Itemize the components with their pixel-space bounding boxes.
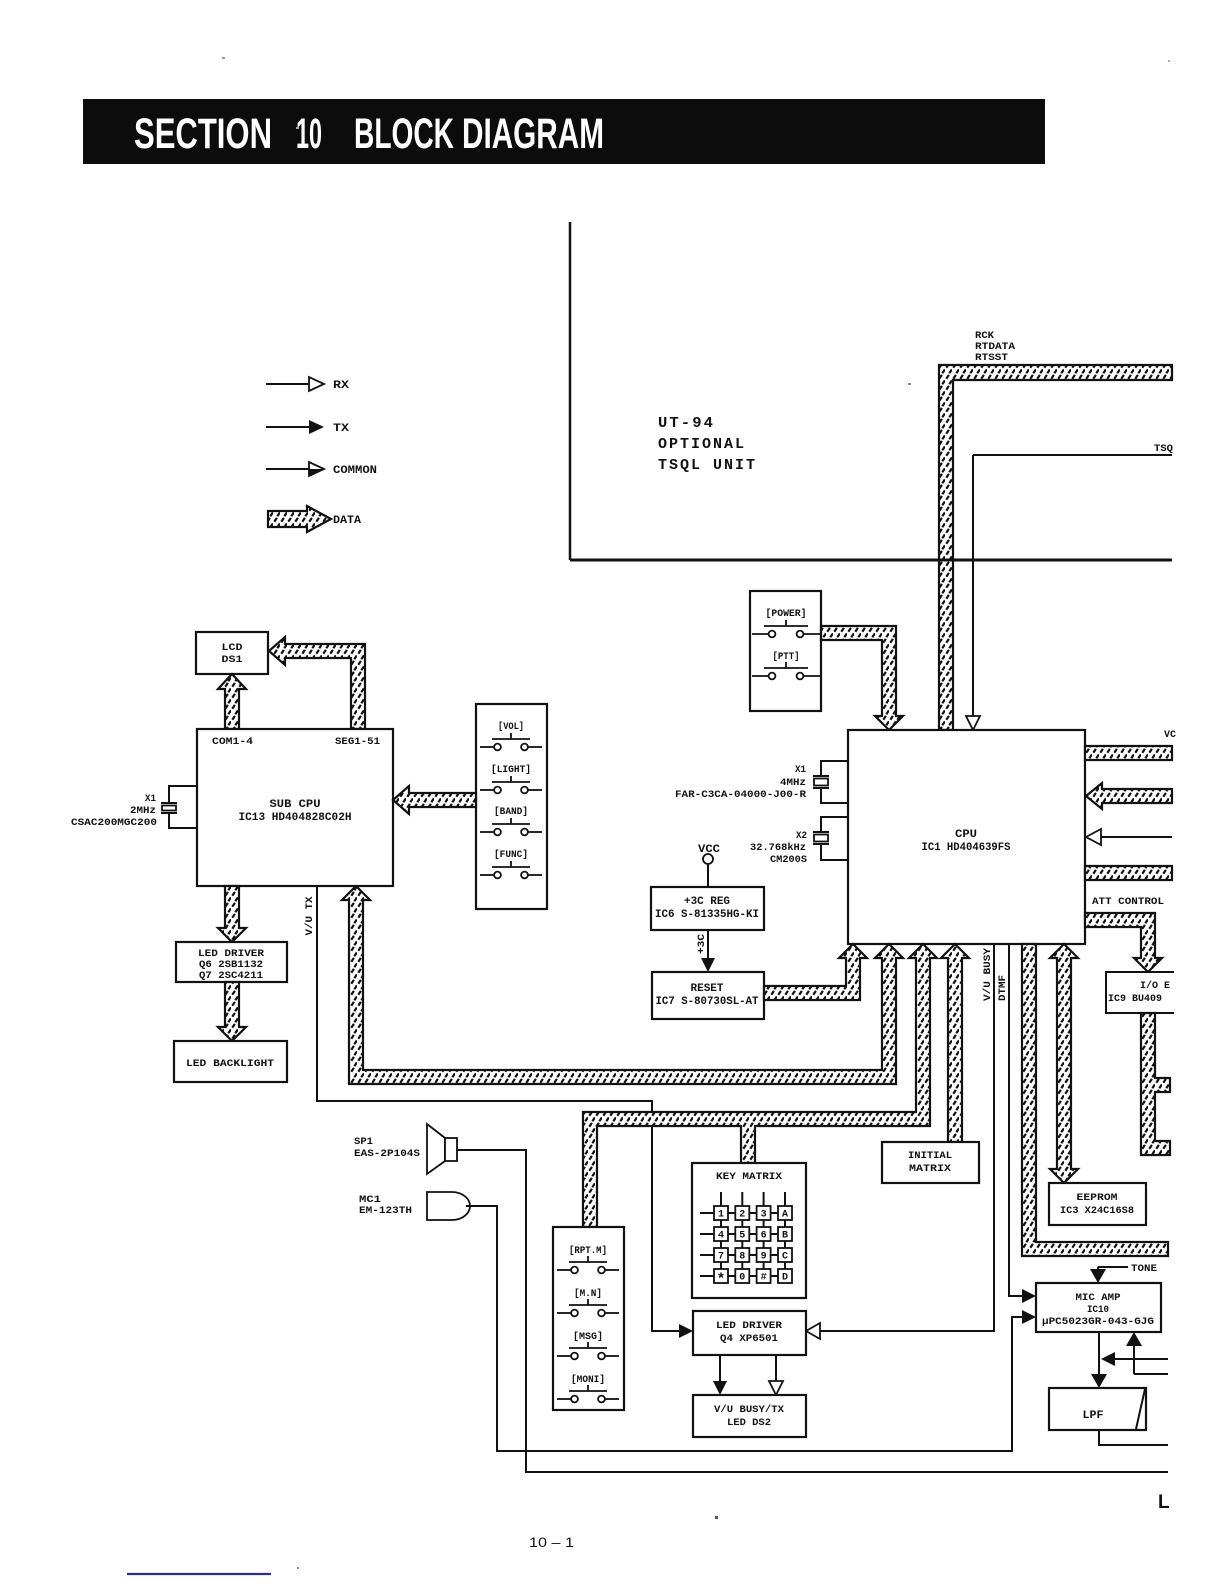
svg-text:DATA: DATA bbox=[333, 515, 361, 527]
svg-text:BLOCK: BLOCK bbox=[354, 110, 454, 158]
svg-text:8: 8 bbox=[739, 1252, 745, 1263]
svg-text:TSQL UNIT: TSQL UNIT bbox=[658, 457, 757, 474]
svg-text:[M.N]: [M.N] bbox=[574, 1288, 602, 1300]
svg-text:[FUNC]: [FUNC] bbox=[494, 849, 528, 861]
svg-text:LPF: LPF bbox=[1083, 1410, 1104, 1422]
svg-text:SECTION: SECTION bbox=[134, 110, 272, 158]
svg-text:RTDATA: RTDATA bbox=[975, 342, 1015, 353]
svg-text:5: 5 bbox=[739, 1231, 745, 1242]
svg-text:X2: X2 bbox=[796, 831, 807, 842]
svg-text:[BAND]: [BAND] bbox=[494, 806, 528, 818]
svg-text:FAR-C3CA-04000-J00-R: FAR-C3CA-04000-J00-R bbox=[675, 790, 806, 801]
svg-text:INITIAL: INITIAL bbox=[908, 1151, 952, 1162]
svg-text:1: 1 bbox=[718, 1210, 724, 1221]
svg-text:X1: X1 bbox=[145, 794, 156, 805]
svg-text:[LIGHT]: [LIGHT] bbox=[491, 764, 531, 776]
svg-text:RCK: RCK bbox=[975, 331, 994, 342]
svg-text:I/O E: I/O E bbox=[1140, 980, 1170, 992]
svg-text:TSQ: TSQ bbox=[1154, 444, 1173, 455]
svg-text:EAS-2P104S: EAS-2P104S bbox=[354, 1149, 420, 1160]
svg-text:LED DS2: LED DS2 bbox=[727, 1418, 771, 1429]
svg-text:3: 3 bbox=[761, 1210, 767, 1221]
svg-text:+3C: +3C bbox=[697, 934, 708, 954]
svg-text:IC13 HD404828C02H: IC13 HD404828C02H bbox=[239, 812, 352, 824]
svg-text:OPTIONAL: OPTIONAL bbox=[658, 436, 746, 453]
svg-text:X1: X1 bbox=[795, 765, 806, 776]
svg-text:[PTT]: [PTT] bbox=[773, 651, 800, 663]
svg-text:LCD: LCD bbox=[222, 643, 243, 654]
svg-text:9: 9 bbox=[761, 1252, 767, 1263]
svg-text:6: 6 bbox=[761, 1231, 767, 1242]
svg-text:TONE: TONE bbox=[1131, 1264, 1157, 1275]
svg-text:LED DRIVER: LED DRIVER bbox=[716, 1321, 782, 1332]
svg-text:VC: VC bbox=[1164, 730, 1176, 741]
svg-text:2: 2 bbox=[739, 1210, 745, 1221]
svg-text:4: 4 bbox=[718, 1231, 724, 1242]
svg-text:RX: RX bbox=[333, 380, 349, 392]
svg-text:V/U TX: V/U TX bbox=[304, 897, 316, 936]
svg-text:D: D bbox=[782, 1273, 788, 1284]
svg-text:EM-123TH: EM-123TH bbox=[359, 1206, 412, 1217]
svg-text:B: B bbox=[782, 1231, 788, 1242]
svg-text:TX: TX bbox=[333, 423, 349, 435]
svg-text:L: L bbox=[1158, 1492, 1170, 1513]
svg-text:[MSG]: [MSG] bbox=[573, 1331, 603, 1343]
svg-text:Q6 2SB1132: Q6 2SB1132 bbox=[199, 960, 263, 971]
svg-text:CPU: CPU bbox=[955, 829, 977, 841]
svg-text:DIAGRAM: DIAGRAM bbox=[462, 110, 604, 158]
svg-text:DS1: DS1 bbox=[222, 655, 243, 666]
svg-text:MIC AMP: MIC AMP bbox=[1076, 1293, 1121, 1304]
svg-text:*: * bbox=[716, 1272, 725, 1289]
svg-text:A: A bbox=[782, 1210, 788, 1221]
svg-text:LED BACKLIGHT: LED BACKLIGHT bbox=[186, 1059, 274, 1070]
svg-text:IC7 S-80730SL-AT: IC7 S-80730SL-AT bbox=[656, 996, 759, 1008]
svg-text:[POWER]: [POWER] bbox=[766, 608, 807, 620]
svg-text:7: 7 bbox=[718, 1252, 724, 1263]
svg-text:COM1-4: COM1-4 bbox=[212, 737, 253, 748]
svg-text:Q7 2SC4211: Q7 2SC4211 bbox=[199, 971, 263, 982]
svg-text:KEY MATRIX: KEY MATRIX bbox=[716, 1172, 782, 1183]
svg-text:µPC5023GR-043-GJG: µPC5023GR-043-GJG bbox=[1042, 1317, 1154, 1328]
svg-text:0: 0 bbox=[739, 1273, 745, 1284]
svg-text:Q4 XP6501: Q4 XP6501 bbox=[720, 1334, 778, 1345]
svg-text:MC1: MC1 bbox=[359, 1195, 381, 1206]
svg-text:10 – 1: 10 – 1 bbox=[529, 1534, 574, 1550]
svg-text:SEG1-51: SEG1-51 bbox=[335, 737, 380, 748]
svg-text:IC10: IC10 bbox=[1087, 1305, 1109, 1316]
svg-text:[MONI]: [MONI] bbox=[571, 1374, 605, 1386]
svg-text:RTSST: RTSST bbox=[975, 353, 1008, 364]
svg-text:CSAC200MGC200: CSAC200MGC200 bbox=[71, 818, 157, 829]
svg-text:MATRIX: MATRIX bbox=[909, 1164, 951, 1175]
svg-text:COMMON: COMMON bbox=[333, 465, 377, 477]
svg-text:LED DRIVER: LED DRIVER bbox=[198, 949, 264, 960]
svg-text:IC9 BU409: IC9 BU409 bbox=[1108, 994, 1162, 1005]
svg-text:EEPROM: EEPROM bbox=[1077, 1193, 1118, 1204]
svg-text:CM200S: CM200S bbox=[770, 855, 807, 866]
svg-text:V/U BUSY/TX: V/U BUSY/TX bbox=[714, 1404, 784, 1416]
svg-text:V/U BUSY: V/U BUSY bbox=[982, 948, 994, 1001]
svg-text:C: C bbox=[782, 1252, 788, 1263]
svg-text:[RPT.M]: [RPT.M] bbox=[569, 1245, 607, 1257]
svg-text:UT-94: UT-94 bbox=[658, 415, 715, 432]
svg-text:SUB CPU: SUB CPU bbox=[270, 799, 321, 811]
svg-text:32.768kHz: 32.768kHz bbox=[750, 842, 806, 854]
svg-text:RESET: RESET bbox=[691, 983, 724, 995]
svg-text:2MHz: 2MHz bbox=[130, 806, 156, 817]
svg-text:IC1 HD404639FS: IC1 HD404639FS bbox=[922, 842, 1011, 854]
svg-text:IC3 X24C16S8: IC3 X24C16S8 bbox=[1060, 1206, 1134, 1217]
svg-text:10: 10 bbox=[296, 110, 322, 158]
svg-text:#: # bbox=[761, 1273, 767, 1284]
svg-text:4MHz: 4MHz bbox=[780, 778, 806, 789]
svg-text:SP1: SP1 bbox=[354, 1137, 373, 1148]
svg-text:+3C REG: +3C REG bbox=[684, 896, 730, 908]
svg-text:ATT CONTROL: ATT CONTROL bbox=[1092, 897, 1164, 908]
svg-text:DTMF: DTMF bbox=[998, 975, 1009, 1001]
svg-text:[VOL]: [VOL] bbox=[498, 721, 524, 733]
svg-text:IC6 S-81335HG-KI: IC6 S-81335HG-KI bbox=[655, 909, 759, 921]
